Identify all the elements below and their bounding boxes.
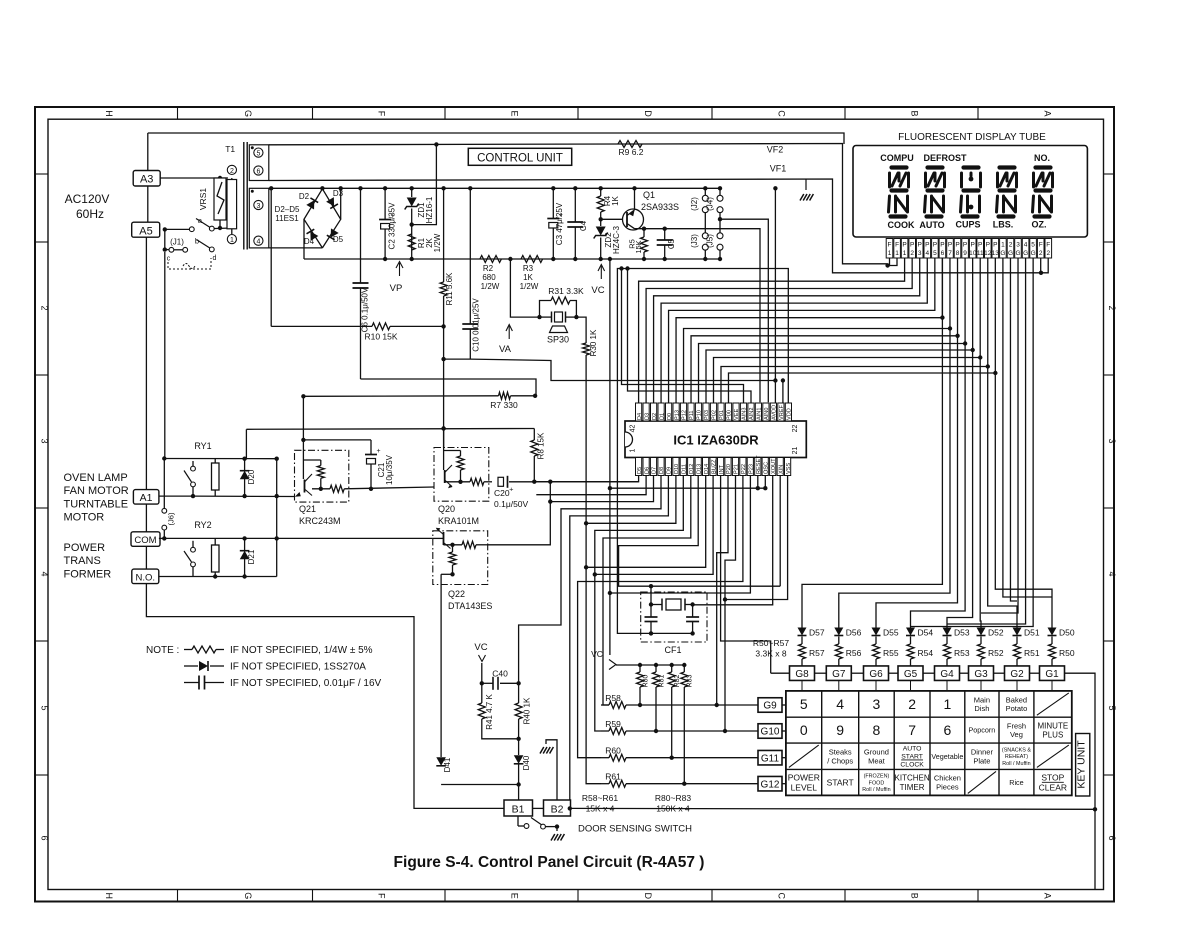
svg-text:680: 680 (482, 273, 496, 282)
speaker SP30 (540, 316, 552, 318)
diode D53 (946, 626, 948, 628)
svg-text:P: P (925, 242, 929, 249)
svg-text:22: 22 (792, 425, 799, 433)
svg-text:R55: R55 (883, 648, 899, 658)
wire VSS nest (725, 476, 788, 600)
resistor R51 (1014, 644, 1021, 659)
svg-text:(J5): (J5) (706, 234, 715, 248)
svg-text:Figure S-4. Control Panel Circ: Figure S-4. Control Panel Circuit (R-4A5… (394, 854, 705, 871)
svg-text:/ Chops: / Chops (827, 756, 853, 765)
svg-text:KRC243M: KRC243M (299, 516, 341, 526)
svg-text:Main: Main (974, 695, 990, 704)
svg-text:6: 6 (256, 168, 260, 175)
diode D21 (244, 538, 246, 550)
diode D56 (838, 626, 840, 628)
svg-text:D9: D9 (667, 467, 673, 474)
svg-text:5: 5 (1107, 705, 1117, 710)
wire Q22 emitter down through D41 (440, 574, 442, 757)
svg-text:3: 3 (256, 203, 260, 210)
svg-text:R59: R59 (605, 719, 621, 729)
resistor R2 680 1/2W (480, 256, 502, 263)
svg-text:VSS: VSS (786, 463, 792, 474)
svg-text:R41 4.7 K: R41 4.7 K (485, 694, 494, 730)
svg-text:MINUTE: MINUTE (1038, 721, 1069, 730)
svg-text:D13: D13 (696, 464, 702, 474)
svg-text:VF1: VF1 (770, 164, 787, 174)
resistor R54 (907, 644, 914, 659)
svg-text:CONTROL UNIT: CONTROL UNIT (477, 153, 563, 165)
svg-text:C6 0.1μ/50V: C6 0.1μ/50V (361, 287, 370, 332)
svg-text:R2: R2 (483, 264, 494, 273)
svg-text:VREF: VREF (779, 404, 785, 420)
wire Q22 base feed (488, 482, 551, 545)
svg-text:Chicken: Chicken (934, 774, 961, 783)
wire COM node (159, 537, 164, 539)
key blank r4c6 (968, 771, 996, 793)
wire J4 to AIN0 (720, 219, 768, 402)
svg-text:VDD: VDD (787, 408, 793, 420)
svg-text:A1: A1 (140, 492, 153, 504)
transistor Q22 DTA143ES group (433, 531, 488, 585)
svg-text:6: 6 (941, 250, 945, 257)
svg-text:POWER: POWER (788, 772, 820, 782)
svg-text:G10: G10 (761, 727, 780, 738)
svg-text:CLEAR: CLEAR (1039, 782, 1067, 792)
resistor R9 6.2 (618, 141, 642, 148)
svg-text:P02: P02 (712, 410, 718, 420)
svg-text:H: H (104, 110, 114, 117)
transistor Q21 KRC243M group (295, 450, 349, 502)
svg-text:KITCHEN: KITCHEN (895, 774, 930, 783)
relay RY2 coil (212, 545, 220, 572)
wire D14 nest (586, 476, 706, 568)
svg-text:VC: VC (474, 642, 487, 653)
svg-text:D40: D40 (522, 755, 531, 770)
wire INT to key matrix rail (721, 476, 771, 667)
svg-text:D5: D5 (637, 467, 643, 474)
label VP arrow (399, 263, 401, 276)
svg-text:N.O.: N.O. (136, 572, 156, 583)
svg-text:1: 1 (944, 696, 952, 712)
svg-text:B2: B2 (551, 804, 564, 816)
svg-text:F: F (895, 242, 899, 249)
wire P22 to G11 feed (578, 476, 743, 758)
svg-text:Potato: Potato (1006, 704, 1028, 713)
svg-text:Plate: Plate (973, 756, 990, 765)
frame coordinate letters bottom (104, 892, 1053, 899)
svg-text:2: 2 (1107, 305, 1117, 310)
wire bus IC D4-P13 to tube P1-P6 (639, 258, 943, 403)
wire ZD1 junction to VF2 line (412, 144, 437, 224)
svg-text:R9 6.2: R9 6.2 (618, 147, 643, 157)
svg-text:OVEN LAMP: OVEN LAMP (64, 472, 128, 484)
diode bridge D2-D5 (304, 189, 322, 248)
svg-text:D3: D3 (644, 413, 650, 420)
svg-text:LBS.: LBS. (993, 220, 1014, 230)
svg-text:5: 5 (256, 151, 260, 158)
svg-text:VRS1: VRS1 (198, 188, 208, 210)
frame band dividers (35, 107, 1114, 902)
wire A3 to transformer (160, 177, 228, 179)
wire P21 to R59 junction (725, 476, 736, 732)
NOTE legend (146, 645, 382, 690)
svg-text:DOOR SENSING SWITCH: DOOR SENSING SWITCH (578, 824, 692, 835)
svg-text:P21: P21 (734, 464, 740, 474)
svg-text:5: 5 (1031, 242, 1035, 249)
varistor VRS1 (214, 178, 226, 220)
svg-text:2: 2 (40, 305, 50, 310)
diode D52 (980, 626, 982, 628)
ground at B2 top (556, 790, 558, 800)
svg-text:D53: D53 (954, 628, 970, 638)
svg-text:D51: D51 (1024, 628, 1040, 638)
svg-text:3: 3 (918, 250, 922, 257)
svg-text:R53: R53 (954, 648, 970, 658)
svg-text:F: F (1046, 242, 1050, 249)
svg-text:VP: VP (390, 283, 403, 294)
svg-text:P: P (933, 242, 937, 249)
svg-text:D55: D55 (883, 628, 899, 638)
wire P23 nest (610, 476, 751, 594)
svg-text:G1: G1 (1045, 669, 1059, 680)
capacitor C21 10u/35V (370, 440, 372, 455)
wire Q1 collector node line (635, 229, 761, 403)
switch J1 contact b (164, 229, 166, 249)
svg-text:FOOD: FOOD (869, 780, 885, 786)
svg-text:R51: R51 (1024, 648, 1040, 658)
KEY UNIT label box (1076, 734, 1090, 797)
wire driver top rail (246, 428, 534, 431)
transistor Q20 KRA101M group (434, 448, 489, 502)
switch J1 contact a (165, 228, 190, 230)
svg-text:21: 21 (792, 447, 799, 455)
svg-text:P: P (902, 242, 906, 249)
wire AVDD to top rail (774, 188, 776, 380)
svg-text:3: 3 (1107, 438, 1117, 443)
wire A3 riser (147, 133, 149, 171)
wire winding3 top to R10 column (270, 188, 272, 326)
svg-text:IC1 IZA630DR: IC1 IZA630DR (673, 433, 759, 448)
svg-text:d: d (213, 255, 217, 262)
svg-text:(FROZEN): (FROZEN) (864, 774, 890, 780)
svg-text:Roll / Muffin: Roll / Muffin (1002, 761, 1030, 767)
svg-text:Roll / Muffin: Roll / Muffin (862, 787, 890, 793)
svg-text:CLOCK: CLOCK (900, 762, 924, 769)
svg-text:T1: T1 (225, 144, 235, 154)
fluorescent display tube box (853, 146, 1087, 238)
wire VRS1 bottom node (219, 220, 221, 228)
svg-text:P: P (918, 242, 922, 249)
svg-text:+: + (376, 448, 380, 455)
wire AVDD VREF legs (774, 381, 776, 404)
diode D20 (244, 459, 246, 470)
svg-text:8: 8 (873, 722, 881, 738)
wire VF2 line (269, 144, 888, 264)
wire bridge left vertex down (303, 219, 305, 259)
resistor R50 (1049, 644, 1056, 659)
border frame outer (35, 107, 1114, 902)
svg-text:PLUS: PLUS (1042, 731, 1063, 740)
svg-text:4: 4 (1107, 571, 1117, 576)
svg-text:HZ16-1: HZ16-1 (425, 196, 434, 223)
svg-text:D57: D57 (809, 628, 825, 638)
svg-text:SP30: SP30 (547, 335, 569, 345)
svg-text:START: START (827, 777, 854, 787)
svg-text:R7 330: R7 330 (490, 400, 518, 410)
control unit title box (468, 148, 571, 165)
wire F1 pins to VF2 (889, 258, 891, 266)
svg-text:RY1: RY1 (194, 441, 211, 451)
svg-text:6: 6 (40, 835, 50, 840)
capacitor C3 47u/25V (552, 188, 554, 219)
wire NO down to B1 (146, 584, 504, 809)
svg-text:7: 7 (908, 722, 916, 738)
capacitor C2 330u/35V (384, 188, 386, 220)
svg-text:C3 47μ/25V: C3 47μ/25V (555, 202, 564, 245)
svg-text:D2: D2 (652, 413, 658, 420)
svg-text:B: B (910, 893, 920, 899)
terminal A3 (133, 171, 160, 187)
svg-text:R8 15K: R8 15K (537, 432, 546, 459)
wire C20 to IC D5 line (534, 481, 638, 483)
svg-text:AC120V: AC120V (65, 192, 110, 206)
svg-text:VC: VC (591, 649, 603, 659)
svg-text:F: F (1039, 242, 1043, 249)
svg-text:G: G (243, 892, 253, 899)
svg-text:C: C (777, 110, 787, 117)
svg-text:OSC: OSC (764, 462, 770, 474)
svg-text:TIMER: TIMER (900, 783, 925, 792)
resistor R82 (671, 665, 673, 672)
wire C6 to R7 (361, 379, 537, 396)
resistor R1 2K 1/2W (408, 234, 415, 250)
svg-text:(J2): (J2) (690, 197, 699, 211)
svg-text:P03: P03 (704, 410, 710, 420)
resistor R53 (944, 644, 951, 659)
resistor R7 330 (303, 395, 498, 398)
svg-text:5: 5 (933, 250, 937, 257)
svg-text:P: P (948, 242, 952, 249)
resistor R10 15K (271, 325, 372, 327)
svg-text:D7: D7 (652, 467, 658, 474)
svg-text:R80~R83: R80~R83 (655, 793, 691, 803)
svg-text:B1: B1 (512, 804, 525, 816)
svg-text:1K: 1K (523, 273, 533, 282)
svg-text:D0: D0 (667, 413, 673, 420)
terminal N.O. (132, 569, 159, 584)
capacitor CF1 right (692, 605, 694, 618)
wire BUZZ nest (595, 476, 713, 575)
svg-text:11ES1: 11ES1 (275, 214, 299, 223)
wire RY1 right vertical (276, 459, 278, 540)
svg-text:A5: A5 (139, 225, 152, 237)
capacitor C6 0.1u/50V (360, 188, 362, 283)
wire tube P6 feed dot (940, 315, 944, 319)
transformer T1 secondary winding 3-4 (249, 188, 268, 248)
resistor R4 1K (600, 188, 602, 196)
IC1 IZA630DR body (625, 421, 806, 458)
svg-text:E: E (510, 110, 520, 116)
svg-text:NO.: NO. (1034, 153, 1050, 163)
wire VC to C40 node (481, 663, 483, 683)
svg-text:1K: 1K (611, 195, 620, 205)
resistor R61 (601, 783, 609, 785)
wire D8 to C40 node (519, 476, 661, 684)
svg-text:C10 0.01μ/25V: C10 0.01μ/25V (472, 298, 481, 352)
wire R30 column to G12 line (586, 355, 601, 784)
svg-text:D21: D21 (247, 549, 256, 564)
capacitor C4 (574, 188, 576, 222)
svg-text:Steaks: Steaks (829, 747, 852, 756)
svg-text:B: B (910, 110, 920, 116)
svg-text:AIN2: AIN2 (749, 408, 755, 420)
svg-text:D3: D3 (333, 189, 344, 198)
resistor R11 5.6K (443, 188, 445, 282)
svg-text:3: 3 (40, 438, 50, 443)
svg-text:1/2W: 1/2W (520, 282, 539, 291)
svg-text:4: 4 (1024, 242, 1028, 249)
svg-text:6: 6 (944, 722, 952, 738)
svg-text:Q21: Q21 (299, 504, 316, 514)
svg-text:A: A (1043, 893, 1053, 899)
svg-text:8: 8 (956, 250, 960, 257)
wire B1 riser (518, 785, 520, 801)
svg-text:Q1: Q1 (643, 190, 655, 200)
terminal circle 1 (227, 235, 236, 244)
svg-text:COM: COM (134, 535, 156, 546)
resistor R83 (683, 665, 685, 672)
transistor Q1 2SA933S (601, 218, 623, 220)
svg-text:AIN3: AIN3 (742, 408, 748, 420)
svg-text:A: A (1043, 110, 1053, 116)
svg-text:G2: G2 (1010, 669, 1024, 680)
transformer T1 core (243, 142, 245, 250)
svg-text:D2: D2 (299, 192, 310, 201)
svg-text:D2–D5: D2–D5 (275, 205, 300, 214)
svg-text:Baked: Baked (1006, 695, 1027, 704)
svg-text:RY2: RY2 (194, 520, 211, 530)
resistor R58 (601, 704, 609, 706)
svg-text:G4: G4 (940, 669, 954, 680)
svg-text:AUTO: AUTO (919, 220, 944, 230)
svg-text:P: P (963, 242, 967, 249)
svg-text:P23: P23 (749, 464, 755, 474)
wire D9 to keyboard bottom rail (570, 476, 669, 810)
wire J1 b to down (164, 252, 166, 458)
wire B2 to keyboard (570, 807, 1095, 810)
svg-text:Ground: Ground (864, 747, 889, 756)
svg-text:R10 15K: R10 15K (364, 332, 397, 342)
terminal circle 6 (254, 166, 263, 175)
svg-text:Dinner: Dinner (971, 747, 994, 756)
wire XOUT to CF1 (693, 476, 773, 605)
terminal B1 (504, 800, 533, 816)
svg-text:R80: R80 (643, 674, 650, 687)
svg-text:POWER: POWER (64, 542, 106, 554)
resistor R56 (835, 644, 842, 659)
svg-text:P: P (971, 242, 975, 249)
svg-text:4: 4 (925, 250, 929, 257)
svg-text:D10: D10 (674, 464, 680, 474)
svg-text:C2 330μ/35V: C2 330μ/35V (388, 202, 397, 250)
svg-text:1/2W: 1/2W (433, 233, 442, 252)
wire G box rail (815, 672, 827, 674)
G row boxes G9-G12 (758, 698, 782, 713)
wire D13 to CF1 XIN line (619, 476, 781, 587)
wire VF1 line (269, 179, 1041, 273)
capacitor C20 0.1u/50V (498, 476, 514, 492)
svg-text:2: 2 (1046, 250, 1050, 257)
wire D7 nest (550, 476, 653, 502)
svg-text:IF NOT SPECIFIED, 1SS270A: IF NOT SPECIFIED, 1SS270A (230, 662, 366, 673)
svg-text:P: P (978, 242, 982, 249)
svg-text:R31 3.3K: R31 3.3K (548, 286, 584, 296)
svg-text:G: G (243, 110, 253, 117)
svg-text:Q20: Q20 (438, 504, 455, 514)
svg-text:D: D (643, 110, 653, 117)
connector (J6) (163, 459, 165, 509)
capacitor C10 0.01u/25V (469, 188, 471, 324)
svg-text:6: 6 (1107, 835, 1117, 840)
wire AIN2 line (628, 269, 752, 404)
diode D41 (436, 757, 446, 766)
svg-text:(J3): (J3) (690, 234, 699, 248)
svg-text:REHEAT): REHEAT) (1005, 754, 1028, 760)
svg-text:1: 1 (895, 250, 899, 257)
svg-text:INT: INT (719, 464, 725, 474)
capacitor C5 (664, 229, 666, 240)
svg-text:1: 1 (630, 448, 637, 452)
diode D51 (1016, 626, 1018, 628)
wire P20 to R58 junction (717, 476, 728, 706)
wire XIN leg (779, 476, 781, 587)
svg-text:R11 5.6K: R11 5.6K (445, 272, 454, 305)
svg-text:1: 1 (888, 250, 892, 257)
svg-text:NOTE :: NOTE : (146, 645, 179, 656)
svg-text:P10: P10 (697, 410, 703, 420)
resistor R5 15K (643, 229, 645, 237)
terminal COM (131, 532, 160, 547)
wire D6 nest (536, 476, 646, 495)
svg-text:P13: P13 (674, 410, 680, 420)
svg-text:G: G (1023, 250, 1028, 257)
wire C21 node (303, 439, 371, 441)
svg-text:Q22: Q22 (448, 589, 465, 599)
svg-text:9: 9 (836, 722, 844, 738)
svg-text:KEY UNIT: KEY UNIT (1076, 740, 1088, 789)
svg-text:XIN: XIN (778, 465, 784, 474)
svg-text:0.1μ/50V: 0.1μ/50V (494, 499, 529, 509)
wire G columns to key matrix (801, 681, 803, 691)
svg-text:R57: R57 (809, 648, 825, 658)
svg-text:7: 7 (948, 250, 952, 257)
svg-text:11: 11 (977, 250, 984, 257)
svg-text:CF1: CF1 (664, 645, 681, 655)
svg-text:DTA143ES: DTA143ES (448, 601, 492, 611)
svg-text:D41: D41 (443, 757, 452, 772)
ground near VF1 (805, 179, 807, 190)
svg-text:R52: R52 (988, 648, 1004, 658)
svg-text:3: 3 (1016, 242, 1020, 249)
svg-text:9: 9 (963, 250, 967, 257)
wire CF1 bottom (650, 632, 693, 634)
resistor R3 1K 1/2W (521, 256, 543, 263)
svg-text:G: G (1015, 250, 1020, 257)
svg-text:F: F (377, 111, 387, 117)
key blank r3c8 (1037, 745, 1069, 767)
wire rail to D20 column (245, 429, 247, 458)
svg-text:Vegetable: Vegetable (931, 752, 963, 761)
